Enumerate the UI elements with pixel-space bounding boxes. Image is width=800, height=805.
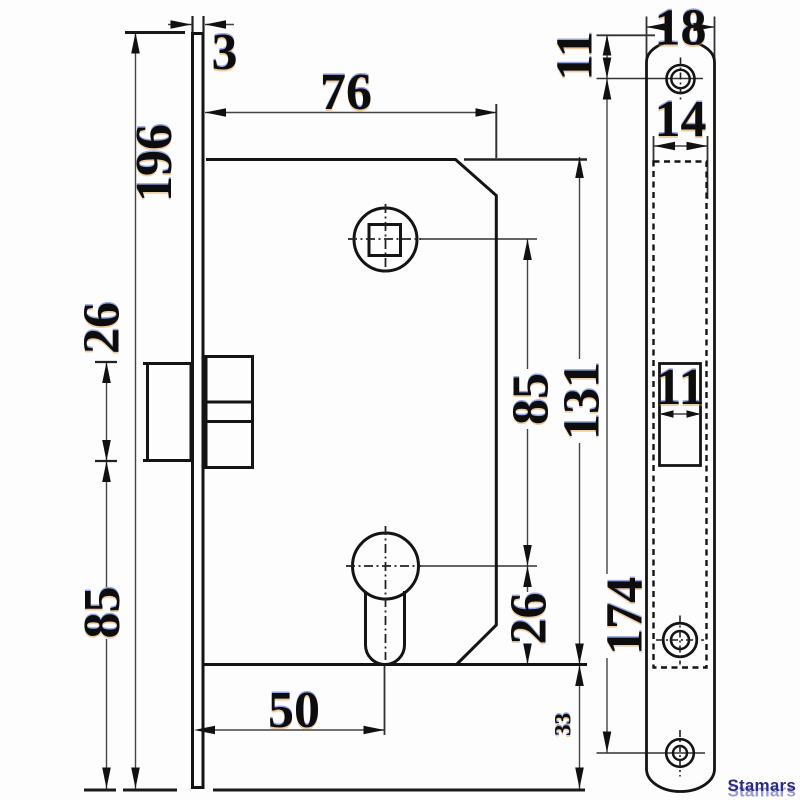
dim 196	[131, 33, 140, 54]
dim line 196 vertical	[135, 33, 137, 789]
svg-text:11: 11	[547, 31, 604, 80]
latch bolt protruding (left of faceplate)	[148, 364, 192, 461]
11 top rotated	[547, 31, 604, 80]
faceplate (side view, thin vertical plate)	[193, 34, 204, 788]
dim line 14	[654, 145, 708, 147]
bottom ticks y790	[84, 789, 116, 792]
33 small rotated	[551, 713, 576, 736]
ticks for 26 latch	[95, 361, 117, 363]
svg-text:76: 76	[320, 64, 372, 121]
dim line 85/26 right vertical	[527, 239, 529, 665]
lock body outline with chamfered right corners	[206, 160, 496, 665]
ext: cylinder centre down to 50 dim	[384, 664, 386, 735]
85 right rotated	[510, 369, 549, 429]
dim line 11 inside cutout	[660, 413, 701, 415]
dim 11 top	[603, 35, 612, 56]
svg-text:131: 131	[554, 362, 611, 440]
svg-text:Stamars: Stamars	[728, 776, 797, 795]
dashed mortise rectangle	[654, 162, 707, 668]
ext: cylinder centre to dims	[419, 565, 537, 567]
ext lines for 18 above plate	[646, 17, 648, 63]
dim 131	[575, 157, 584, 178]
26 latch rotated	[83, 300, 121, 358]
174 rotated	[606, 574, 643, 658]
cylinder crosshairs	[346, 565, 421, 567]
ext lines for 14	[653, 136, 655, 163]
plate outline (rounded)	[647, 41, 715, 792]
dim 174	[603, 79, 612, 100]
131 rotated	[559, 359, 600, 443]
dim 26 latch	[102, 362, 111, 383]
dim line 76	[205, 112, 497, 114]
middle screw hole	[663, 623, 697, 657]
dim 33	[575, 665, 584, 686]
svg-text:26: 26	[74, 302, 131, 354]
ext line for 76 right	[495, 104, 497, 158]
svg-text:33: 33	[551, 713, 576, 736]
svg-text:174: 174	[597, 577, 654, 655]
dim 50	[194, 726, 215, 735]
tick at plate top level	[597, 34, 659, 36]
bottom screw hole	[666, 739, 694, 767]
dim 85 right	[523, 239, 532, 260]
svg-text:85: 85	[74, 587, 131, 639]
dim line 26/85 left vertical	[106, 362, 108, 789]
top screw hole	[667, 65, 695, 93]
85 left rotated	[85, 587, 122, 639]
dim 76	[205, 108, 226, 117]
svg-text:3: 3	[212, 24, 238, 81]
svg-text:11: 11	[655, 359, 704, 416]
196 rotated	[126, 124, 183, 202]
dim line 18	[647, 26, 715, 28]
spindle hole: circle + square	[354, 208, 417, 271]
ext: body top to 131	[464, 158, 587, 161]
dim 3	[171, 20, 192, 29]
spindle crosshairs	[348, 238, 421, 240]
dim 14	[654, 142, 675, 151]
ext: spindle centre to dims	[419, 238, 537, 240]
svg-text:196: 196	[126, 124, 183, 202]
dim line 50	[194, 729, 385, 731]
svg-text:50: 50	[268, 682, 320, 739]
svg-text:26: 26	[501, 593, 558, 645]
ext through bottom screw	[597, 752, 706, 754]
dim 11 cutout	[660, 410, 674, 418]
18	[655, 13, 706, 42]
latch bolt body (right of faceplate)	[206, 357, 253, 468]
26 right rotated	[511, 592, 547, 645]
top tick for 196 / faceplate top extension	[125, 31, 185, 34]
dim 18	[647, 23, 668, 32]
dim 85 left	[102, 461, 111, 482]
svg-text:14: 14	[655, 91, 707, 148]
dim line 11 / 174 vertical	[606, 35, 608, 753]
ext through top screw	[597, 78, 704, 80]
svg-text:85: 85	[503, 373, 560, 425]
euro cylinder profile	[353, 533, 419, 599]
dim line 131/33 vertical	[579, 157, 581, 789]
dim 26 right	[523, 566, 532, 587]
dim 3 extension ticks above faceplate	[191, 16, 193, 32]
latch cutout rectangle	[660, 364, 701, 466]
dim line 3 (faceplate thickness) tails	[168, 24, 192, 26]
